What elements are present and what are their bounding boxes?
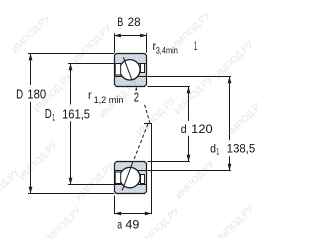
svg-text:r: r xyxy=(88,88,92,102)
svg-text:28: 28 xyxy=(128,15,141,29)
svg-text:138,5: 138,5 xyxy=(227,142,256,156)
svg-text:49: 49 xyxy=(125,218,139,232)
svg-text:1: 1 xyxy=(194,39,197,53)
svg-text:1: 1 xyxy=(52,113,55,124)
svg-text:d: d xyxy=(181,122,187,136)
svg-text:D: D xyxy=(16,88,23,102)
svg-text:a: a xyxy=(117,218,122,232)
svg-text:D: D xyxy=(45,107,52,121)
svg-text:120: 120 xyxy=(191,122,213,136)
svg-text:1: 1 xyxy=(216,147,219,158)
svg-text:d: d xyxy=(210,141,216,155)
svg-text:B: B xyxy=(117,15,123,29)
svg-text:161,5: 161,5 xyxy=(62,107,90,121)
